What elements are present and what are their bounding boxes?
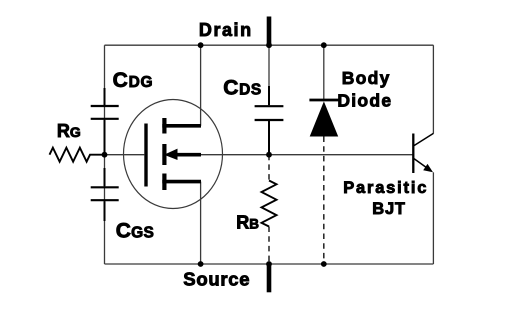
mosfet M1 source bar — [162, 180, 201, 184]
mosfet M1 body arrow — [164, 149, 201, 160]
label RG — [57, 121, 81, 141]
node top drain junction — [198, 42, 204, 48]
node top diode junction — [321, 42, 327, 48]
svg-text:RB: RB — [236, 212, 259, 232]
capacitor CDG — [91, 88, 119, 155]
svg-text:CDS: CDS — [223, 77, 261, 100]
svg-text:Source: Source — [183, 268, 250, 289]
svg-text:CGS: CGS — [116, 220, 154, 243]
label CDS — [223, 77, 261, 100]
terminal source stub — [267, 262, 272, 292]
node bottom source junction — [198, 261, 204, 267]
label RB — [236, 212, 259, 232]
mosfet M1 channel segment middle — [162, 144, 166, 165]
label Body Diode — [337, 68, 392, 110]
wire left column — [104, 45, 106, 264]
wire dashed RB lower — [268, 227, 270, 265]
capacitor CGS — [91, 168, 119, 221]
svg-text:Body: Body — [342, 68, 391, 88]
transistor Q1 parasitic BJT base bar — [412, 134, 414, 174]
svg-text:RG: RG — [57, 121, 81, 141]
wire dashed diode to source — [323, 137, 325, 265]
transistor Q1 collector lead — [414, 133, 434, 145]
wire bottom rail — [105, 263, 434, 265]
wire drain column — [200, 45, 202, 126]
node top CDS junction — [266, 42, 272, 48]
node mid CDS junction — [266, 152, 272, 158]
wire source column — [200, 182, 202, 264]
label Drain — [199, 20, 253, 40]
terminal drain stub — [267, 17, 272, 46]
node bottom RB junction — [266, 261, 272, 267]
wire CDS to mid rail — [268, 120, 270, 155]
diode D1 body diode — [309, 100, 338, 137]
label Source — [183, 268, 250, 289]
svg-text:Parasitic: Parasitic — [343, 179, 428, 197]
wire gate lead — [90, 154, 144, 156]
transistor Q1 emitter lead with arrow — [414, 159, 433, 173]
mosfet M1 gate bar — [144, 124, 147, 187]
svg-text:CDG: CDG — [113, 69, 154, 92]
mosfet M1 channel segment bottom — [162, 174, 166, 191]
resistor RB — [262, 181, 277, 227]
svg-text:Drain: Drain — [199, 20, 253, 40]
label CGS — [116, 220, 154, 243]
resistor RG — [50, 148, 105, 162]
svg-text:Diode: Diode — [337, 90, 392, 110]
mosfet M1 drain bar — [162, 124, 201, 128]
wire right column collector — [432, 45, 434, 133]
wire CDS column top — [268, 45, 270, 106]
capacitor CDS — [255, 86, 284, 155]
wire diode column top — [323, 45, 325, 100]
wire right column emitter — [432, 172, 434, 264]
wire mid body rail — [201, 154, 413, 156]
mosfet M1 channel segment top — [162, 118, 166, 134]
node gate junction — [102, 152, 108, 158]
node bottom diode junction — [321, 261, 327, 267]
wire top rail — [105, 44, 434, 46]
wire dashed RB upper — [268, 155, 270, 181]
svg-text:BJT: BJT — [372, 200, 405, 218]
mosfet M1 body circle — [124, 100, 223, 209]
label CDG — [113, 69, 154, 92]
label Parasitic BJT — [343, 179, 428, 218]
